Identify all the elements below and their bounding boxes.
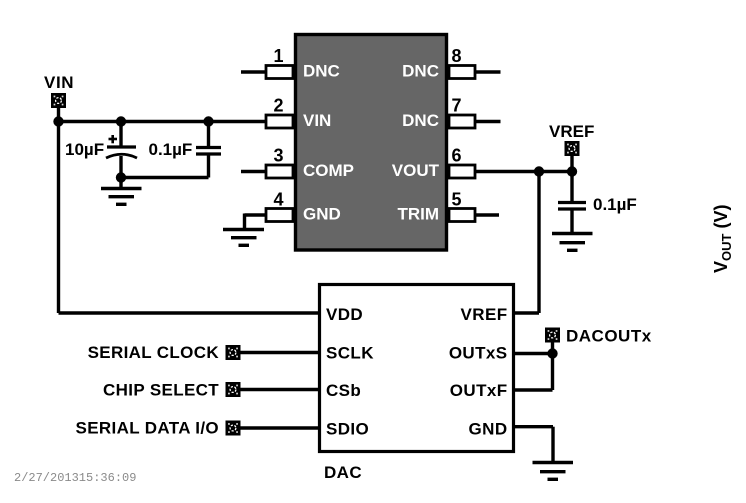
junction DACOUT bbox=[547, 348, 557, 358]
node VREF label bbox=[549, 122, 594, 141]
wire CSb bbox=[241, 388, 322, 391]
svg-text:SDIO: SDIO bbox=[326, 420, 369, 439]
svg-text:8: 8 bbox=[451, 46, 461, 66]
svg-text:6: 6 bbox=[451, 146, 461, 166]
wire OUTxS bbox=[513, 352, 553, 355]
label C1 10uF bbox=[65, 140, 104, 159]
pin 7 bbox=[449, 96, 501, 129]
op-amp U1 body bbox=[296, 35, 447, 251]
svg-text:5: 5 bbox=[451, 190, 461, 210]
svg-text:1: 1 bbox=[273, 46, 283, 66]
svg-text:TRIM: TRIM bbox=[397, 204, 439, 223]
svg-text:VREF: VREF bbox=[549, 122, 594, 141]
svg-text:2/27/201315:36:09: 2/27/201315:36:09 bbox=[14, 471, 136, 485]
wire VDD feed bbox=[59, 311, 321, 314]
capacitor C1 10uF bbox=[106, 122, 137, 178]
junction VIN rail bbox=[53, 116, 63, 126]
svg-text:7: 7 bbox=[451, 96, 461, 116]
wire VOUT to VREF node bbox=[475, 170, 572, 173]
terminal DACOUTx bbox=[545, 328, 560, 343]
svg-text:10µF: 10µF bbox=[65, 140, 104, 159]
terminal VREF bbox=[565, 141, 580, 156]
terminal CSb bbox=[226, 382, 241, 397]
svg-text:CHIP SELECT: CHIP SELECT bbox=[103, 381, 219, 400]
svg-text:SERIAL CLOCK: SERIAL CLOCK bbox=[88, 343, 220, 362]
svg-text:VIN: VIN bbox=[303, 111, 331, 130]
junction VREF to DAC bbox=[534, 166, 544, 176]
svg-text:VIN: VIN bbox=[44, 73, 74, 92]
svg-text:SCLK: SCLK bbox=[326, 344, 374, 363]
wire C2 bottom to C1 bottom bbox=[121, 176, 209, 179]
label C2 0.1uF bbox=[149, 140, 193, 159]
svg-text:COMP: COMP bbox=[303, 161, 354, 180]
wire OUTxS to OUTxF vertical bbox=[551, 342, 554, 390]
label C3 0.1uF bbox=[593, 195, 637, 214]
wire DAC GND drop bbox=[551, 427, 554, 461]
terminal SCLK bbox=[226, 345, 241, 360]
label DAC bbox=[324, 463, 362, 482]
capacitor C3 0.1uF bbox=[558, 172, 586, 233]
svg-text:DNC: DNC bbox=[402, 111, 439, 130]
svg-text:0.1µF: 0.1µF bbox=[149, 140, 193, 159]
pin 4 bbox=[245, 190, 294, 229]
pin 2 bbox=[266, 96, 293, 129]
wire VIN terminal to rail bbox=[57, 107, 60, 122]
DAC U2 body bbox=[320, 285, 514, 452]
wire VREF vertical to DAC bbox=[537, 172, 540, 314]
svg-text:0.1µF: 0.1µF bbox=[593, 195, 637, 214]
pin 8 bbox=[449, 46, 501, 79]
pin 3 bbox=[241, 146, 293, 179]
terminal VIN bbox=[51, 93, 66, 108]
svg-text:GND: GND bbox=[303, 204, 341, 223]
svg-text:3: 3 bbox=[273, 146, 283, 166]
ground pin4 bbox=[223, 230, 264, 246]
ground VREF cap bbox=[552, 234, 593, 251]
node VIN label bbox=[44, 73, 74, 92]
label SERIAL CLOCK bbox=[88, 343, 220, 362]
label VOUT (V) axis bbox=[711, 205, 734, 273]
node DACOUTx label bbox=[566, 327, 652, 346]
svg-text:OUTxS: OUTxS bbox=[449, 344, 508, 363]
label SERIAL DATA I/O bbox=[76, 419, 219, 438]
wire OUTxF bbox=[513, 388, 553, 391]
svg-text:DAC: DAC bbox=[324, 463, 362, 482]
svg-text:VREF: VREF bbox=[461, 305, 508, 324]
junction C1 bottom bbox=[116, 172, 126, 182]
junction C2 top bbox=[203, 116, 213, 126]
svg-text:2: 2 bbox=[273, 96, 283, 116]
wire DAC GND bbox=[513, 425, 553, 428]
svg-text:VDD: VDD bbox=[326, 305, 363, 324]
pin 6 bbox=[449, 146, 475, 179]
terminal SDIO bbox=[226, 421, 241, 436]
wire SCLK bbox=[241, 351, 322, 354]
label timestamp bbox=[14, 471, 136, 485]
wire VREF terminal drop bbox=[570, 155, 573, 172]
svg-text:GND: GND bbox=[469, 420, 508, 439]
pin 1 bbox=[241, 46, 293, 79]
svg-text:DNC: DNC bbox=[402, 61, 439, 80]
capacitor C2 0.1uF bbox=[196, 122, 221, 178]
label CHIP SELECT bbox=[103, 381, 219, 400]
wire VIN vertical to VDD bbox=[57, 122, 60, 314]
junction VREF cap bbox=[567, 166, 577, 176]
pin 5 bbox=[449, 190, 499, 222]
junction C1 top bbox=[116, 116, 126, 126]
svg-text:CSb: CSb bbox=[326, 381, 361, 400]
svg-text:DNC: DNC bbox=[303, 61, 340, 80]
ground input caps bbox=[101, 189, 142, 205]
wire SDIO bbox=[241, 426, 322, 429]
ground DAC bbox=[533, 463, 574, 480]
wire C1 bottom to ground bbox=[119, 178, 122, 188]
svg-text:VOUT: VOUT bbox=[392, 161, 440, 180]
wire DAC VREF stub bbox=[515, 311, 539, 314]
svg-text:DACOUTx: DACOUTx bbox=[566, 327, 652, 346]
svg-text:SERIAL DATA I/O: SERIAL DATA I/O bbox=[76, 419, 219, 438]
wire VIN rail bbox=[59, 120, 267, 123]
svg-text:4: 4 bbox=[273, 190, 283, 210]
svg-text:OUTxF: OUTxF bbox=[450, 381, 508, 400]
